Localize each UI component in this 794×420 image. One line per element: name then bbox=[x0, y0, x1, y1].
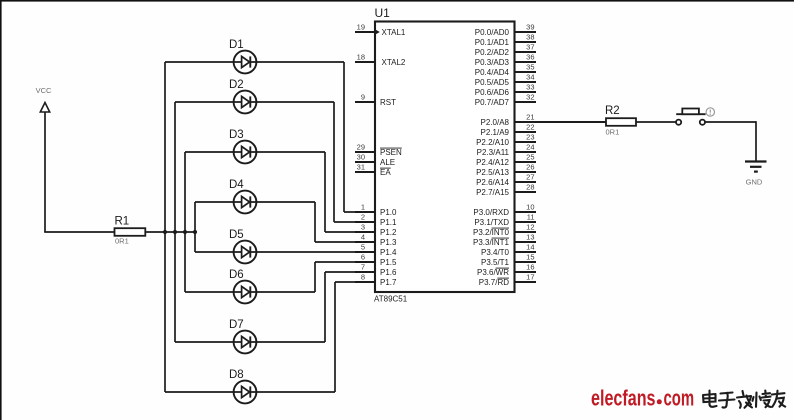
U1 pin 17 P3.7/RD bbox=[479, 273, 536, 287]
U1 pin 25 P2.4/A12 bbox=[476, 153, 536, 167]
U1 pin 10 P3.0/RXD bbox=[473, 203, 536, 217]
svg-text:RST: RST bbox=[380, 98, 396, 107]
svg-text:28: 28 bbox=[526, 183, 534, 192]
U1 pin 36 P0.3/AD3 bbox=[475, 53, 536, 67]
U1 pin 11 P3.1/TXD bbox=[474, 213, 536, 227]
watermark elecfans.com logo bbox=[591, 386, 694, 411]
junction dot 1 on VCC bus bbox=[163, 230, 167, 234]
svg-text:D8: D8 bbox=[229, 369, 244, 381]
svg-text:XTAL1: XTAL1 bbox=[382, 28, 406, 37]
wire P2.0/A8 to R2 bbox=[515, 121, 606, 123]
wire D6 cathode vertical bbox=[314, 262, 316, 292]
U1 pin 15 P3.5/T1 bbox=[481, 253, 536, 267]
svg-text:P1.5: P1.5 bbox=[380, 258, 397, 267]
svg-text:D5: D5 bbox=[229, 229, 244, 241]
U1 pin 35 P0.4/AD4 bbox=[475, 63, 536, 77]
svg-text:P0.7/AD7: P0.7/AD7 bbox=[475, 98, 510, 107]
wire D7 cathode horizontal bbox=[256, 341, 325, 343]
junction dot 2 on VCC bus bbox=[173, 230, 177, 234]
svg-text:19: 19 bbox=[357, 23, 365, 32]
wire D5 anode bbox=[195, 251, 234, 253]
U1 pin 1 P1.0 bbox=[355, 203, 397, 217]
wire R2 to button bbox=[636, 121, 676, 123]
wire D6 to chip pin bbox=[315, 261, 375, 263]
U1 pin 22 P2.1/A9 bbox=[481, 123, 536, 137]
svg-text:P1.7: P1.7 bbox=[380, 278, 397, 287]
op-amp? no: microcontroller U1 AT89C51 body bbox=[375, 22, 515, 293]
LED D5 bbox=[229, 229, 256, 263]
U1 pin 39 P0.0/AD0 bbox=[475, 23, 536, 37]
wire D7 anode bbox=[175, 341, 234, 343]
U1 pin 12 P3.2/INT0 bbox=[473, 223, 536, 237]
LED D7 bbox=[229, 319, 256, 353]
svg-text:R2: R2 bbox=[605, 105, 620, 117]
U1 pin 7 P1.6 bbox=[355, 263, 397, 277]
svg-text:P3.6/WR: P3.6/WR bbox=[477, 268, 509, 277]
U1 pin 38 P0.1/AD1 bbox=[475, 33, 536, 47]
svg-text:U1: U1 bbox=[375, 6, 391, 20]
wire D7 cathode vertical bbox=[324, 272, 326, 342]
wire D3 to chip pin bbox=[325, 231, 375, 233]
wire VCC vertical bbox=[44, 112, 46, 232]
svg-text:9: 9 bbox=[361, 93, 365, 102]
wire D3 cathode horizontal bbox=[256, 151, 325, 153]
svg-text:D4: D4 bbox=[229, 179, 244, 191]
svg-text:23: 23 bbox=[526, 133, 534, 142]
wire D3 anode bbox=[185, 151, 234, 153]
svg-text:P0.4/AD4: P0.4/AD4 bbox=[475, 68, 510, 77]
ground GND bbox=[745, 162, 767, 187]
svg-text:27: 27 bbox=[526, 173, 534, 182]
svg-text:38: 38 bbox=[526, 33, 534, 42]
svg-text:17: 17 bbox=[526, 273, 534, 282]
wire VCC to R1 bbox=[44, 231, 115, 233]
LED D1 bbox=[229, 39, 256, 73]
svg-text:D2: D2 bbox=[229, 79, 244, 91]
svg-text:1: 1 bbox=[361, 203, 365, 212]
svg-text:EA: EA bbox=[380, 168, 391, 177]
svg-text:P3.7/RD: P3.7/RD bbox=[479, 278, 509, 287]
wire D6 anode bbox=[185, 291, 234, 293]
svg-text:P0.6/AD6: P0.6/AD6 bbox=[475, 88, 510, 97]
svg-text:5: 5 bbox=[361, 243, 365, 252]
U1 pin 26 P2.5/A13 bbox=[476, 163, 536, 177]
wire D4 to chip pin bbox=[315, 241, 375, 243]
svg-text:26: 26 bbox=[526, 163, 534, 172]
svg-text:R1: R1 bbox=[115, 216, 130, 228]
svg-text:D6: D6 bbox=[229, 269, 244, 281]
U1 pin 34 P0.5/AD5 bbox=[475, 73, 536, 87]
U1 pin 3 P1.2 bbox=[355, 223, 397, 237]
svg-text:32: 32 bbox=[526, 93, 534, 102]
svg-text:24: 24 bbox=[526, 143, 534, 152]
wire D2 anode bbox=[175, 101, 234, 103]
wire D8 anode bbox=[165, 391, 234, 393]
U1 pin 4 P1.3 bbox=[355, 233, 397, 247]
resistor R2 bbox=[605, 105, 636, 137]
svg-text:0R1: 0R1 bbox=[115, 237, 129, 246]
svg-text:P1.3: P1.3 bbox=[380, 238, 397, 247]
svg-text:XTAL2: XTAL2 bbox=[382, 58, 406, 67]
svg-text:P2.2/A10: P2.2/A10 bbox=[476, 138, 509, 147]
U1 pin 30 ALE bbox=[355, 153, 395, 167]
svg-text:4: 4 bbox=[361, 233, 365, 242]
wire R1 to LED bus bbox=[145, 231, 196, 233]
svg-text:18: 18 bbox=[357, 53, 365, 62]
svg-text:22: 22 bbox=[526, 123, 534, 132]
svg-text:P0.3/AD3: P0.3/AD3 bbox=[475, 58, 510, 67]
U1 pin 28 P2.7/A15 bbox=[476, 183, 536, 197]
svg-text:P3.4/T0: P3.4/T0 bbox=[481, 248, 510, 257]
svg-text:P0.1/AD1: P0.1/AD1 bbox=[475, 38, 510, 47]
svg-text:11: 11 bbox=[527, 213, 535, 222]
U1 pin 5 P1.4 bbox=[355, 243, 397, 257]
U1 pin 16 P3.6/WR bbox=[477, 263, 536, 277]
U1 pin 37 P0.2/AD2 bbox=[475, 43, 536, 57]
wire D4 cathode vertical bbox=[314, 202, 316, 242]
svg-text:ALE: ALE bbox=[380, 158, 395, 167]
wire D2 cathode horizontal bbox=[256, 101, 334, 103]
wire D3 cathode vertical bbox=[324, 152, 326, 232]
U1 pin 33 P0.6/AD6 bbox=[475, 83, 536, 97]
wire D1 cathode horizontal bbox=[256, 61, 344, 63]
svg-text:35: 35 bbox=[526, 63, 534, 72]
svg-text:14: 14 bbox=[526, 243, 534, 252]
svg-text:29: 29 bbox=[357, 143, 365, 152]
U1 pin 23 P2.2/A10 bbox=[476, 133, 536, 147]
power symbol VCC bbox=[36, 86, 52, 112]
wire bus vertical x195 (D4/D5 anode) bbox=[194, 202, 196, 252]
U1 pin 2 P1.1 bbox=[355, 213, 397, 227]
U1 pin 27 P2.6/A14 bbox=[476, 173, 536, 187]
svg-text:37: 37 bbox=[526, 43, 534, 52]
svg-text:15: 15 bbox=[526, 253, 534, 262]
svg-text:0R1: 0R1 bbox=[606, 128, 620, 137]
wire D1 cathode vertical bbox=[343, 62, 345, 212]
U1 pin 32 P0.7/AD7 bbox=[475, 93, 536, 107]
svg-text:36: 36 bbox=[526, 53, 534, 62]
LED D6 bbox=[229, 269, 256, 303]
svg-text:P3.0/RXD: P3.0/RXD bbox=[473, 208, 509, 217]
junction dot 3 on VCC bus bbox=[183, 230, 187, 234]
U1 pin 24 P2.3/A11 bbox=[477, 143, 536, 157]
svg-text:P3.2/INT0: P3.2/INT0 bbox=[473, 228, 510, 237]
wire D1 anode bbox=[165, 61, 234, 63]
LED D4 bbox=[229, 179, 256, 213]
svg-text:VCC: VCC bbox=[36, 86, 52, 95]
svg-text:34: 34 bbox=[526, 73, 534, 82]
XTAL1 clock wedge bbox=[376, 30, 380, 35]
svg-text:P3.1/TXD: P3.1/TXD bbox=[474, 218, 509, 227]
svg-text:P0.2/AD2: P0.2/AD2 bbox=[475, 48, 510, 57]
svg-text:16: 16 bbox=[526, 263, 534, 272]
svg-text:D7: D7 bbox=[229, 319, 244, 331]
svg-text:P1.2: P1.2 bbox=[380, 228, 397, 237]
svg-text:3: 3 bbox=[361, 223, 365, 232]
svg-text:30: 30 bbox=[357, 153, 365, 162]
svg-text:33: 33 bbox=[526, 83, 534, 92]
svg-text:AT89C51: AT89C51 bbox=[374, 295, 408, 304]
U1 pin 31 EA bbox=[355, 163, 391, 177]
wire bus vertical x185 (D3/D6 anode) bbox=[184, 152, 186, 292]
svg-text:P1.0: P1.0 bbox=[380, 208, 397, 217]
watermark chinese characters 电子发烧友 bbox=[703, 391, 785, 408]
svg-text:P2.3/A11: P2.3/A11 bbox=[477, 148, 510, 157]
U1 pin 6 P1.5 bbox=[355, 253, 397, 267]
svg-text:P0.0/AD0: P0.0/AD0 bbox=[475, 28, 510, 37]
wire bus vertical x175 (D2/D7 anode) bbox=[174, 102, 176, 342]
svg-text:D1: D1 bbox=[229, 39, 244, 51]
svg-text:21: 21 bbox=[526, 113, 534, 122]
svg-text:elecfans: elecfans bbox=[591, 386, 656, 411]
wire D2 to chip pin bbox=[334, 221, 375, 223]
wire D8 cathode vertical bbox=[334, 282, 336, 392]
junction dot 4 on VCC bus bbox=[193, 230, 197, 234]
svg-text:D3: D3 bbox=[229, 129, 244, 141]
svg-text:2: 2 bbox=[361, 213, 365, 222]
U1 pin 8 P1.7 bbox=[355, 273, 397, 287]
svg-text:P1.4: P1.4 bbox=[380, 248, 397, 257]
wire D5 cathode to pin P1.4 bbox=[256, 251, 375, 253]
svg-text:8: 8 bbox=[361, 273, 365, 282]
U1 pin 19 XTAL1 bbox=[355, 23, 406, 37]
svg-text:25: 25 bbox=[526, 153, 534, 162]
svg-text:P2.1/A9: P2.1/A9 bbox=[481, 128, 510, 137]
wire bus vertical x165 (D1/D8 anode) bbox=[164, 62, 166, 392]
svg-text:P0.5/AD5: P0.5/AD5 bbox=[475, 78, 510, 87]
svg-text:39: 39 bbox=[526, 23, 534, 32]
svg-text:6: 6 bbox=[361, 253, 365, 262]
wire D2 cathode vertical bbox=[333, 102, 335, 222]
LED D2 bbox=[229, 79, 256, 113]
wire D4 anode bbox=[195, 201, 234, 203]
U1 pin 29 PSEN bbox=[355, 143, 402, 157]
svg-text:31: 31 bbox=[357, 163, 365, 172]
svg-text:7: 7 bbox=[361, 263, 365, 272]
svg-text:PSEN: PSEN bbox=[380, 148, 402, 157]
svg-text:P2.5/A13: P2.5/A13 bbox=[476, 168, 509, 177]
U1 pin 21 P2.0/A8 bbox=[481, 113, 535, 127]
wire D8 cathode horizontal bbox=[256, 391, 335, 393]
U1 pin 9 RST bbox=[355, 93, 396, 107]
svg-text:P1.1: P1.1 bbox=[380, 218, 397, 227]
svg-text:13: 13 bbox=[526, 233, 534, 242]
wire button to GND bbox=[705, 121, 756, 123]
U1 pin 13 P3.3/INT1 bbox=[473, 233, 536, 247]
U1 pin 14 P3.4/T0 bbox=[481, 243, 536, 257]
wire D1 to chip pin bbox=[344, 211, 375, 213]
push button SW bbox=[676, 109, 706, 125]
wire down to GND bbox=[755, 121, 757, 161]
svg-text:P2.4/A12: P2.4/A12 bbox=[476, 158, 509, 167]
wire D7 to chip pin bbox=[325, 271, 375, 273]
resistor R1 bbox=[115, 216, 146, 246]
button actuator marker bbox=[706, 108, 714, 116]
svg-text:12: 12 bbox=[526, 223, 534, 232]
svg-text:10: 10 bbox=[526, 203, 534, 212]
svg-text:P2.6/A14: P2.6/A14 bbox=[476, 178, 509, 187]
wire D4 cathode horizontal bbox=[256, 201, 315, 203]
LED D8 bbox=[229, 369, 256, 403]
svg-text:GND: GND bbox=[746, 178, 763, 187]
svg-text:P1.6: P1.6 bbox=[380, 268, 397, 277]
svg-text:P3.3/INT1: P3.3/INT1 bbox=[473, 238, 510, 247]
LED D3 bbox=[229, 129, 256, 163]
svg-text:P3.5/T1: P3.5/T1 bbox=[481, 258, 510, 267]
svg-text:P2.7/A15: P2.7/A15 bbox=[476, 188, 509, 197]
wire D6 cathode horizontal bbox=[256, 291, 315, 293]
svg-text:com: com bbox=[664, 386, 695, 411]
wire D8 to chip pin bbox=[335, 281, 375, 283]
U1 pin 18 XTAL2 bbox=[355, 53, 406, 67]
svg-text:P2.0/A8: P2.0/A8 bbox=[481, 118, 510, 127]
